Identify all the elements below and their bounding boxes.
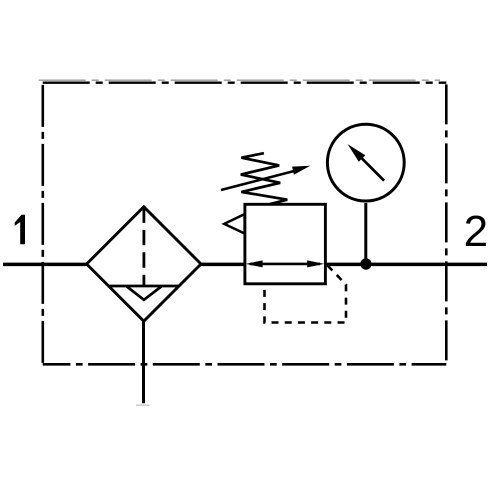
adjustment arrow shaft	[221, 170, 297, 190]
gauge G1 stem	[364, 203, 367, 264]
filter F1 baffle V	[127, 287, 162, 300]
filter F1 body (diamond)	[87, 207, 201, 321]
svg-text:2: 2	[464, 207, 488, 256]
wire: port 1 to filter inlet	[3, 263, 87, 267]
regulator flow arrowhead right	[307, 260, 324, 267]
enclosure border bottom (dash-dot)	[43, 363, 447, 366]
drain line	[142, 321, 145, 403]
junction node	[360, 258, 371, 269]
drain end mark	[136, 404, 150, 406]
relief vent triangle	[224, 214, 244, 233]
spring (zigzag)	[241, 153, 287, 204]
regulator flow arrow shaft	[250, 263, 320, 266]
gauge G1 needle arrowhead	[348, 144, 366, 162]
filter F1 separator chord	[109, 285, 179, 288]
regulator flow arrowhead left	[246, 260, 263, 267]
enclosure border top (dash-dot), grey companion line	[39, 79, 440, 81]
enclosure border left (dash-dot)	[41, 81, 44, 364]
gauge G1 dial	[327, 124, 404, 201]
filter F1 dashed axis	[142, 208, 145, 287]
gauge G1 needle shaft	[354, 150, 385, 181]
wire: filter outlet to regulator inlet	[201, 263, 246, 267]
wire: regulator outlet to port 2	[325, 263, 488, 267]
regulator R1 body	[245, 204, 326, 283]
enclosure border right (dash-dot)	[445, 81, 448, 364]
enclosure border top (dash-dot)	[43, 82, 447, 84]
pilot line (dashed)	[265, 266, 347, 323]
adjustment arrowhead	[292, 166, 310, 175]
port label 1	[15, 215, 25, 245]
